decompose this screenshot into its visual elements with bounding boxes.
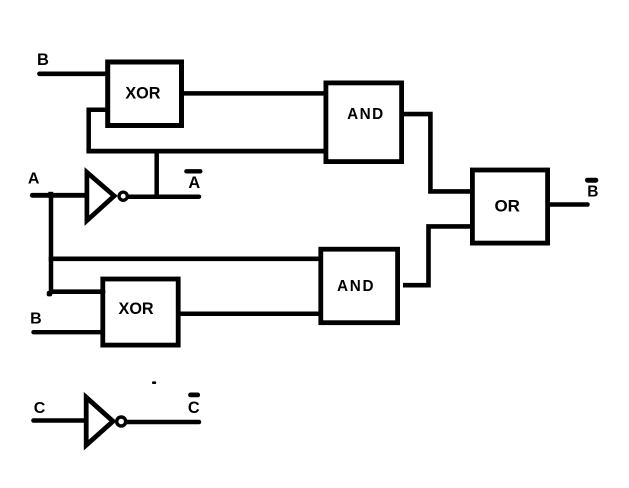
wire: A branch down bbox=[49, 195, 54, 294]
svg-text:A: A bbox=[28, 171, 40, 188]
wire: input B to XOR U1 pin 1 bbox=[40, 71, 108, 76]
and-gate U3 bbox=[326, 83, 402, 162]
svg-text:AND: AND bbox=[347, 106, 385, 123]
wire: input B to XOR U4 pin 2 bbox=[34, 330, 104, 334]
svg-text:B: B bbox=[30, 310, 42, 327]
wire: XOR U4 output to AND U6 pin 2 bbox=[179, 311, 322, 316]
inversion bubble U2 bbox=[119, 192, 127, 200]
wire: AND U3 output to OR U5 pin 1 bbox=[403, 114, 472, 191]
wire: input A to NOT U2 bbox=[32, 193, 86, 198]
svg-text:C: C bbox=[188, 399, 200, 417]
wire: A-bar tap riser bbox=[154, 151, 159, 197]
wire: A-bar bus to AND U3 pin 2 bbox=[86, 149, 327, 154]
svg-text:B: B bbox=[37, 51, 49, 69]
not-gate U2 bbox=[87, 172, 114, 220]
or-gate U5 bbox=[472, 170, 547, 243]
wire: input C to NOT U7 bbox=[34, 418, 86, 423]
stray mark bbox=[152, 381, 156, 384]
svg-text:AND: AND bbox=[337, 278, 375, 295]
wire: A bus to AND U6 pin 1 bbox=[49, 256, 322, 261]
svg-text:A: A bbox=[188, 174, 200, 192]
and-gate U6 bbox=[321, 249, 398, 323]
xor-gate U1 bbox=[108, 62, 182, 126]
wire: A branch to XOR U4 pin 1 bbox=[49, 289, 103, 294]
wire: AND U6 output to OR U5 pin 2 bbox=[403, 226, 472, 285]
node: corner dot bbox=[47, 291, 53, 297]
wire: NOT U2 output (A-bar) bbox=[129, 194, 200, 199]
wire: OR U5 output bbox=[549, 202, 588, 207]
svg-text:OR: OR bbox=[494, 196, 520, 215]
node: A branch junction tick bbox=[48, 192, 53, 198]
svg-text:B: B bbox=[587, 183, 598, 200]
wire: XOR U1 pin 2 input stub bbox=[87, 107, 109, 112]
svg-text:C: C bbox=[34, 400, 46, 417]
wire: NOT U7 output (C-bar) bbox=[127, 420, 199, 425]
svg-text:XOR: XOR bbox=[125, 85, 160, 103]
svg-text:XOR: XOR bbox=[119, 300, 154, 318]
xor-gate U4 bbox=[103, 279, 178, 345]
label B-bar bbox=[587, 180, 598, 200]
wire: A-bar feedback riser to XOR U1 pin 2 bbox=[86, 108, 91, 152]
inversion bubble U7 bbox=[117, 417, 126, 426]
label A-bar bbox=[186, 171, 200, 192]
label C-bar bbox=[188, 395, 200, 417]
node: XOR U4 pin 1 dot bbox=[100, 289, 106, 295]
wire: XOR U1 output to AND U3 pin 1 bbox=[183, 91, 327, 96]
not-gate U7 bbox=[86, 397, 113, 445]
